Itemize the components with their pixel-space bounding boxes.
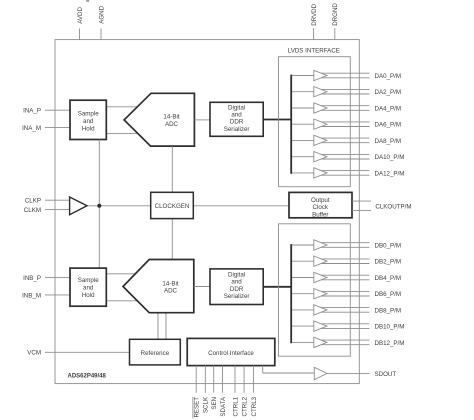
pin INA_M	[22, 125, 70, 132]
14-bit ADC B	[123, 260, 194, 313]
svg-text:Hold: Hold	[82, 125, 95, 132]
pin DRGND	[332, 3, 339, 40]
LVDS buffer B6	[292, 289, 370, 299]
pin INB_M	[22, 292, 70, 299]
LVDS buffer A6	[292, 119, 370, 129]
LVDS box A	[279, 57, 351, 187]
LVDS buffer A10	[292, 152, 370, 162]
14-bit ADC A	[124, 93, 194, 146]
wire CLKOUT pair	[352, 201, 371, 211]
svg-text:DB12_P/M: DB12_P/M	[375, 340, 405, 347]
svg-text:Buffer: Buffer	[312, 211, 328, 218]
wire S/H A to ADC A (upper)	[106, 106, 145, 108]
svg-text:ADS62P49/48: ADS62P49/48	[68, 373, 107, 379]
pin RESET label	[193, 397, 201, 419]
pin INB_P	[23, 275, 70, 282]
output clock buffer	[289, 192, 352, 218]
wire clock buffer to CLOCKGEN	[87, 205, 151, 207]
svg-text:14-Bit: 14-Bit	[162, 280, 178, 287]
digital DDR serializer A	[210, 102, 263, 136]
pin SEN stub	[213, 366, 215, 393]
svg-text:DA6_P/M: DA6_P/M	[375, 122, 401, 129]
LVDS box B	[279, 224, 351, 356]
wires ADC B to reference	[158, 313, 166, 340]
svg-text:DB8_P/M: DB8_P/M	[375, 307, 401, 314]
svg-text:and: and	[83, 284, 94, 291]
svg-text:AVDD: AVDD	[77, 7, 84, 24]
CLOCKGEN	[151, 192, 194, 218]
svg-text:DA4_P/M: DA4_P/M	[375, 105, 401, 112]
svg-text:SEN: SEN	[211, 397, 218, 410]
svg-text:DB2_P/M: DB2_P/M	[375, 259, 401, 266]
svg-text:Serializer: Serializer	[224, 293, 250, 300]
pin VCM	[27, 350, 129, 357]
reference	[130, 339, 181, 365]
wire CLOCKGEN to ADC A	[171, 146, 173, 192]
svg-text:DA0_P/M: DA0_P/M	[375, 73, 401, 80]
LVDS buffer B12	[292, 337, 370, 347]
digital DDR serializer B	[210, 269, 263, 305]
sample and hold A	[70, 100, 106, 139]
svg-text:INB_M: INB_M	[22, 292, 41, 299]
pin SDATA stub	[222, 366, 224, 393]
svg-text:DDR: DDR	[230, 119, 244, 126]
svg-text:DRGND: DRGND	[332, 3, 339, 26]
wire CLOCKGEN to ADC B	[171, 219, 173, 260]
sample and hold B	[70, 268, 106, 306]
svg-text:SDATA: SDATA	[220, 396, 227, 417]
pin DRVDD	[311, 3, 318, 39]
svg-text:and: and	[83, 118, 94, 125]
svg-text:and: and	[231, 112, 242, 119]
svg-text:AGND: AGND	[98, 5, 105, 23]
svg-text:DA10_P/M: DA10_P/M	[375, 154, 405, 161]
svg-text:Clock: Clock	[313, 204, 329, 211]
svg-text:DA12_P/M: DA12_P/M	[375, 170, 405, 177]
svg-text:DB4_P/M: DB4_P/M	[375, 275, 401, 282]
junction dot	[97, 204, 101, 208]
svg-text:CTRL1: CTRL1	[232, 396, 239, 416]
clock vertical line to S/H blocks	[98, 140, 100, 269]
LVDS buffer B4	[292, 272, 370, 282]
svg-text:SCLK: SCLK	[203, 396, 210, 413]
LVDS buffer A12	[292, 168, 370, 178]
svg-text:CLKM: CLKM	[24, 207, 41, 214]
svg-text:DDR: DDR	[230, 286, 244, 293]
svg-text:VCM: VCM	[27, 350, 41, 357]
svg-text:Sample: Sample	[78, 277, 100, 284]
svg-text:INA_M: INA_M	[22, 125, 41, 132]
pin CTRL2 stub	[243, 366, 245, 393]
wire SDOUT	[327, 372, 370, 374]
svg-text:14-Bit: 14-Bit	[163, 113, 179, 120]
clock buffer U1	[70, 197, 87, 215]
LVDS bus A	[290, 75, 292, 174]
LVDS buffer A8	[292, 135, 370, 145]
svg-text:Hold: Hold	[82, 292, 95, 299]
pin CTRL3 stub	[252, 366, 254, 393]
svg-text:CLOCKGEN: CLOCKGEN	[155, 203, 190, 210]
svg-text:CLKOUTP/M: CLKOUTP/M	[375, 203, 411, 210]
svg-text:CTRL2: CTRL2	[242, 396, 249, 416]
LVDS buffer B10	[292, 321, 370, 331]
pin CLKP	[25, 198, 70, 205]
pin CLKM	[24, 207, 70, 214]
wire serializer B to LVDS bus B	[263, 286, 291, 288]
svg-text:DRVDD: DRVDD	[311, 3, 318, 25]
wire S/H B to ADC B (upper)	[106, 273, 145, 275]
wire ADC A to serializer A	[194, 119, 210, 121]
wire ADC B to serializer B	[194, 286, 210, 288]
svg-text:Sample: Sample	[78, 110, 100, 117]
chip outline	[55, 40, 359, 384]
wire CLOCKGEN to output clock buffer	[193, 205, 289, 207]
pin AVDD	[77, 7, 84, 40]
LVDS buffer A4	[292, 103, 370, 113]
LVDS buffer B2	[292, 256, 370, 266]
SDOUT buffer	[314, 367, 327, 379]
wire S/H A to ADC A (lower)	[106, 133, 145, 135]
pin CTRL1 stub	[234, 366, 236, 393]
pin INA_P	[23, 108, 70, 115]
svg-text:Output: Output	[311, 197, 330, 204]
svg-text:SDOUT: SDOUT	[375, 371, 397, 378]
svg-text:Reference: Reference	[141, 350, 170, 357]
svg-text:and: and	[231, 279, 242, 286]
svg-text:INB_P: INB_P	[23, 275, 41, 282]
svg-text:CTRL3: CTRL3	[251, 396, 258, 416]
LVDS buffer B8	[292, 305, 370, 315]
stray mark	[86, 0, 89, 2]
svg-text:Digital: Digital	[228, 104, 245, 111]
pin SCLK stub	[204, 366, 206, 393]
svg-text:CLKP: CLKP	[25, 198, 41, 205]
pin AGND	[98, 5, 105, 39]
svg-text:ADC: ADC	[164, 288, 178, 295]
svg-text:RESET: RESET	[194, 397, 201, 418]
LVDS buffer B0	[292, 240, 370, 250]
svg-text:DB0_P/M: DB0_P/M	[375, 242, 401, 249]
LVDS buffer A0	[292, 70, 370, 80]
svg-text:Control Interface: Control Interface	[208, 350, 254, 357]
svg-text:DA2_P/M: DA2_P/M	[375, 89, 401, 96]
wire S/H B to ADC B (lower)	[106, 300, 145, 302]
LVDS buffer A2	[292, 87, 370, 97]
svg-text:Digital: Digital	[228, 271, 245, 278]
wire control interface to SDOUT buffer	[263, 366, 315, 373]
pin RESET stub	[195, 366, 197, 393]
svg-text:DB6_P/M: DB6_P/M	[375, 291, 401, 298]
svg-text:DB10_P/M: DB10_P/M	[375, 324, 405, 331]
wire serializer A to LVDS bus A	[263, 119, 291, 121]
svg-text:INA_P: INA_P	[23, 108, 41, 115]
svg-text:Serializer: Serializer	[224, 126, 250, 133]
svg-text:LVDS INTERFACE: LVDS INTERFACE	[288, 47, 340, 54]
LVDS bus B	[290, 244, 292, 343]
svg-text:ADC: ADC	[165, 121, 179, 128]
control interface	[187, 338, 275, 365]
svg-text:DA8_P/M: DA8_P/M	[375, 138, 401, 145]
